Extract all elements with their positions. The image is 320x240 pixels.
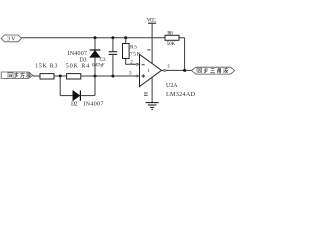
resistor R4	[67, 74, 81, 79]
diode D3	[90, 50, 101, 57]
wire D3 cathode lead	[94, 38, 96, 50]
svg-text:3V: 3V	[7, 37, 16, 43]
glyph tong	[8, 73, 13, 78]
svg-text:R5: R5	[130, 45, 137, 51]
wire R4 to op-amp pin 3	[81, 75, 140, 77]
glyph bu	[14, 72, 18, 78]
minus sign	[142, 64, 145, 66]
node C3 top junction	[111, 36, 114, 39]
op-amp U2A	[140, 54, 162, 86]
wire C3 top lead	[112, 38, 114, 52]
node D3/D2 junction	[94, 75, 97, 78]
svg-text:VCC: VCC	[147, 17, 157, 23]
resistor R3	[40, 74, 54, 79]
capacitor C3	[109, 52, 118, 55]
power VCC	[147, 17, 157, 23]
wire input port to R3	[33, 75, 40, 77]
glyph bo	[223, 68, 228, 73]
pin 11 number (rotated)	[144, 93, 148, 95]
svg-text:U2A: U2A	[166, 83, 178, 89]
wire C3 bottom lead	[112, 55, 114, 76]
node C3 bottom junction	[111, 75, 114, 78]
svg-text:0.47uF: 0.47uF	[92, 64, 105, 69]
wire D2 left riser	[59, 76, 61, 96]
glyph tong	[197, 68, 202, 73]
port input sync square wave	[1, 72, 33, 78]
svg-text:R8: R8	[167, 31, 173, 37]
glyph fang	[20, 72, 25, 78]
wire D3 anode lead	[94, 57, 96, 76]
svg-text:15K R3: 15K R3	[35, 64, 58, 70]
resistor R5	[123, 44, 130, 59]
pin 3 connection circle	[136, 75, 138, 77]
wire R5 to op-amp pin 2	[126, 59, 140, 65]
wire D2 anode lead	[60, 95, 73, 97]
plus sign	[142, 74, 145, 77]
wire R5 top lead	[125, 38, 127, 44]
svg-text:D2: D2	[71, 102, 78, 108]
pin 4 number (rotated)	[147, 49, 150, 51]
svg-text:IN4007: IN4007	[83, 102, 103, 108]
ground	[146, 103, 159, 110]
glyph bu	[204, 68, 208, 73]
svg-text:LM324AD: LM324AD	[166, 91, 196, 98]
node output junction	[183, 69, 186, 72]
port 3V	[1, 35, 21, 43]
node D3 top junction	[94, 36, 97, 39]
wire R8 to output node	[184, 38, 186, 71]
port output sync triangle wave	[192, 67, 235, 74]
svg-text:IN4007: IN4007	[68, 51, 88, 57]
wire op-amp output	[162, 69, 192, 71]
glyph jiao	[218, 68, 221, 73]
wire R8 right lead	[179, 37, 185, 39]
wire D2 right riser	[94, 76, 96, 96]
node R5 top junction	[124, 36, 127, 39]
node R3/R4/D2 junction	[59, 75, 62, 78]
pin 2 connection circle	[136, 63, 138, 65]
wire R3 to R4	[54, 75, 67, 77]
wire D2 cathode lead	[80, 95, 95, 97]
resistor R8	[165, 35, 179, 40]
diode D2	[73, 90, 81, 100]
wire op-amp pin 11 to ground	[151, 77, 153, 102]
svg-text:C3: C3	[100, 57, 106, 63]
wire VCC stem to op-amp pin 4	[151, 23, 153, 63]
svg-text:D3: D3	[80, 57, 87, 63]
glyph san	[210, 69, 215, 73]
svg-text:50K R4: 50K R4	[66, 64, 89, 70]
wire 3V rail	[21, 37, 165, 39]
pin 1 connection circle	[164, 69, 166, 71]
svg-text:50K: 50K	[167, 41, 176, 47]
glyph bo	[26, 72, 31, 78]
